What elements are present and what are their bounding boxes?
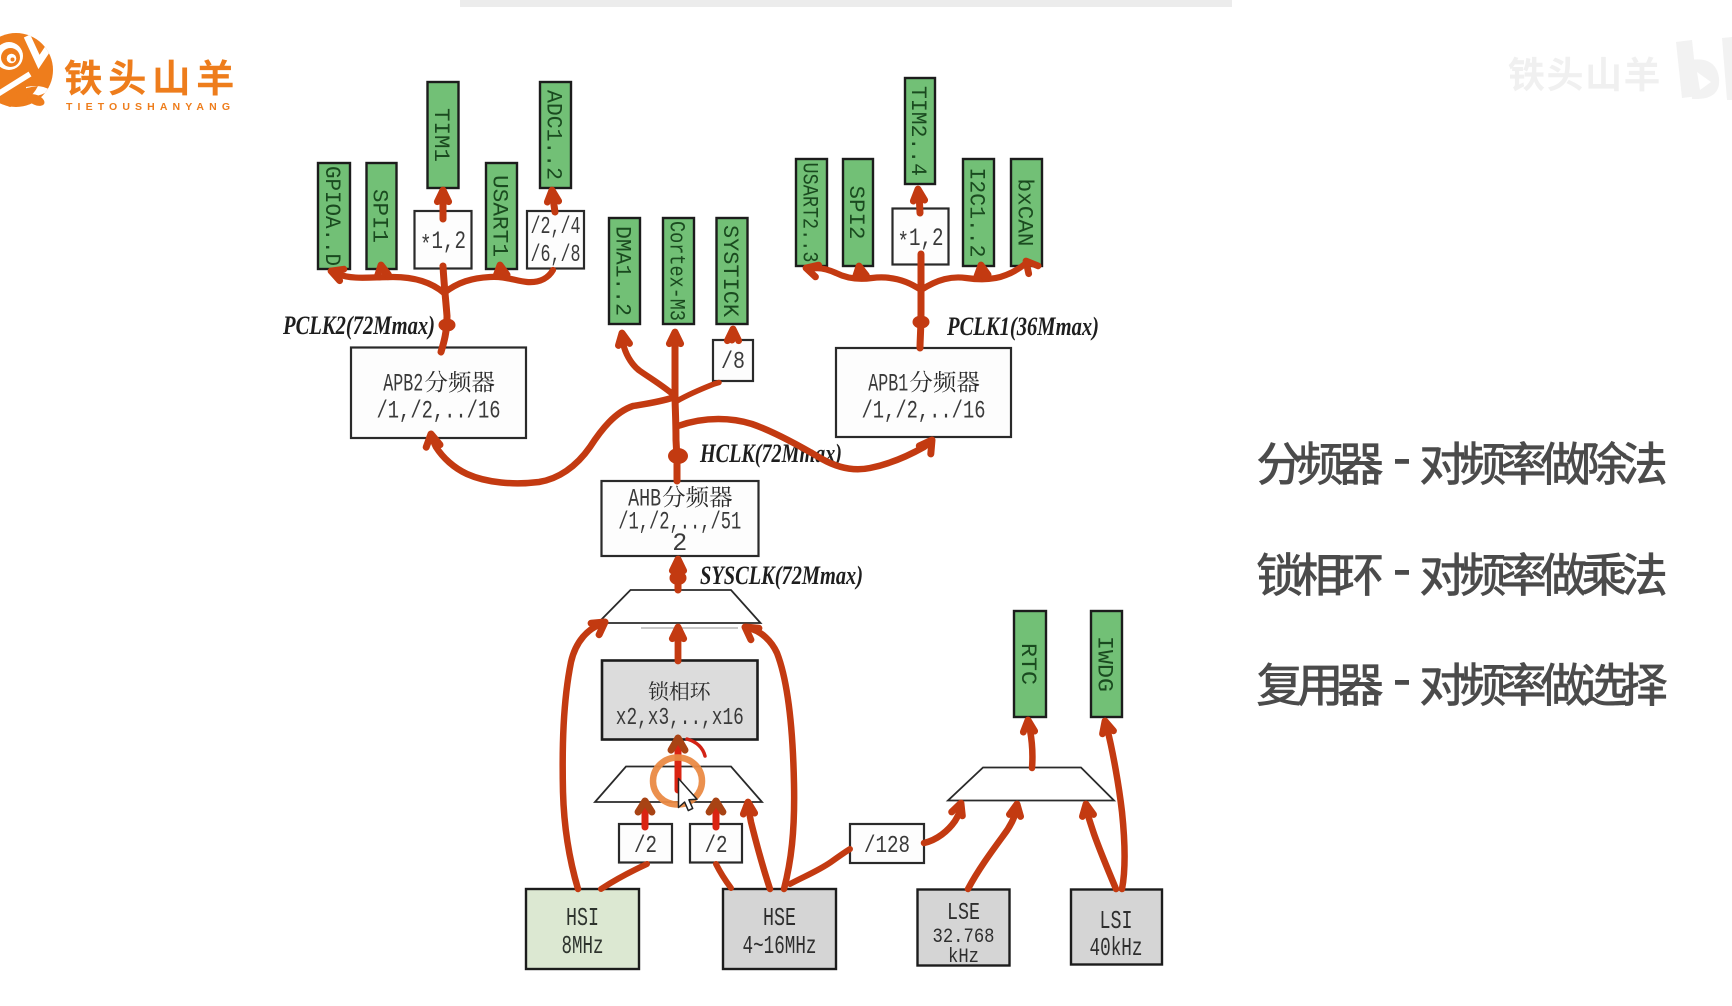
divider box /2 (HSE path) xyxy=(690,824,742,863)
peripheral box DMA1..2 xyxy=(609,218,640,324)
svg-text:LSE: LSE xyxy=(947,900,980,927)
PLL box 锁相环 xyxy=(602,661,758,740)
label PCLK1(36Mmax) xyxy=(946,312,1099,341)
svg-text:HSI: HSI xyxy=(566,903,599,933)
multiplier box *1,2 (APB1) xyxy=(893,209,949,265)
LSE oscillator box xyxy=(918,890,1010,970)
wire LSI to IWDG xyxy=(1103,721,1125,889)
annotation small red arc xyxy=(687,739,705,756)
PLL source multiplexer trapezoid xyxy=(595,767,762,803)
LSI oscillator box xyxy=(1071,890,1162,965)
svg-text:40kHz: 40kHz xyxy=(1090,933,1143,963)
peripheral box ADC1..2 xyxy=(540,82,571,188)
RTC source multiplexer trapezoid xyxy=(948,768,1114,801)
SYSCLK mux inner line xyxy=(641,627,738,629)
svg-text:USART2..3: USART2..3 xyxy=(797,163,822,263)
svg-text:SYSCLK(72Mmax): SYSCLK(72Mmax) xyxy=(700,561,863,590)
svg-text:8MHz: 8MHz xyxy=(562,931,604,961)
svg-text:2: 2 xyxy=(672,529,687,558)
watermark 铁头山羊 xyxy=(1509,56,1659,91)
wire HCLK left swoosh to APB2 xyxy=(426,397,675,483)
mouse cursor xyxy=(679,779,698,811)
label PCLK2(72Mmax) xyxy=(282,311,435,340)
wire branch to I2C1..2 and bxCAN xyxy=(921,261,1038,290)
divider box /2,/4,/6,/8 (ADC) xyxy=(527,211,584,269)
top faint bar xyxy=(460,0,1232,7)
node PCLK2 junction dot xyxy=(439,319,456,332)
svg-text:*1,2: *1,2 xyxy=(420,227,466,260)
wire HCLK right swoosh to APB1 xyxy=(678,419,932,469)
wire HSI tall swoosh to SYSCLK mux xyxy=(563,622,605,889)
svg-text:HSE: HSE xyxy=(763,903,796,933)
annotation orange circle xyxy=(653,758,702,805)
text line 分频器 - 对频率做除法 xyxy=(1258,441,1666,485)
text line 锁相环 - 对频率做乘法 xyxy=(1257,552,1665,596)
svg-text:PCLK1(36Mmax): PCLK1(36Mmax) xyxy=(946,312,1099,341)
wire LSE to RTC mux xyxy=(968,804,1021,889)
svg-text:GPIOA..D: GPIOA..D xyxy=(319,166,344,266)
peripheral box bxCAN xyxy=(1011,159,1042,266)
node PCLK1 junction dot xyxy=(913,316,930,329)
wire branch to DMA1..2 xyxy=(618,333,675,396)
arrow RTC mux to RTC xyxy=(1023,720,1034,768)
wire PCLK2 trunk xyxy=(441,266,447,352)
svg-text:/8: /8 xyxy=(721,349,745,376)
peripheral box SPI2 xyxy=(843,159,873,266)
wire HSE to /128 xyxy=(790,849,850,884)
arrow /2,/4 box to ADC1..2 xyxy=(547,190,558,212)
arrow *1,2 to TIM2..4 xyxy=(913,189,924,213)
svg-text:RTC: RTC xyxy=(1015,643,1040,685)
arrow /2 to PLL mux (left) xyxy=(638,801,652,827)
wire /128 to RTC mux xyxy=(924,803,962,843)
peripheral box RTC xyxy=(1014,611,1046,717)
HSE oscillator box xyxy=(723,889,836,969)
label SYSCLK(72Mmax) xyxy=(700,561,863,590)
wire AHB trunk to Cortex-M3 xyxy=(669,332,680,481)
svg-text:IWDG: IWDG xyxy=(1092,636,1117,692)
arrow /2 to PLL mux (right) xyxy=(709,801,723,827)
peripheral box SYSTICK xyxy=(717,218,748,324)
wire branch to USART2..3 and SPI2 xyxy=(806,265,921,290)
svg-text:PCLK2(72Mmax): PCLK2(72Mmax) xyxy=(282,311,435,340)
arrow PLL mux to PLL xyxy=(671,738,685,790)
svg-text:USART1: USART1 xyxy=(487,175,512,257)
svg-text:SYSTICK: SYSTICK xyxy=(717,225,742,318)
multiplier box *1,2 (APB2) xyxy=(415,211,472,269)
wire branch to USART1 and /2,/4 box xyxy=(444,265,553,293)
arrow PLL to SYSCLK mux xyxy=(672,627,683,661)
arrow /8 to SYSTICK xyxy=(727,329,738,341)
logo text 铁头山羊 xyxy=(65,59,233,95)
AHB divider box xyxy=(602,481,759,558)
svg-text:/2: /2 xyxy=(705,833,728,860)
logo subtext TIETOUSHANYANG xyxy=(66,101,230,113)
peripheral box USART1 xyxy=(486,163,517,269)
svg-text:/2: /2 xyxy=(634,833,657,860)
svg-text:4~16MHz: 4~16MHz xyxy=(743,931,817,961)
wire branch to /8 box xyxy=(677,383,719,402)
logo goat icon xyxy=(0,33,55,108)
svg-text:APB1: APB1 xyxy=(868,370,908,399)
arrow *1,2 to TIM1 xyxy=(437,190,448,219)
svg-text:SPI2: SPI2 xyxy=(843,186,868,240)
wire LSI to RTC mux xyxy=(1082,804,1116,889)
svg-text:TIM1: TIM1 xyxy=(428,108,453,162)
peripheral box IWDG xyxy=(1091,611,1122,717)
node HCLK junction dot xyxy=(668,448,688,464)
wire HSE to /2 xyxy=(716,864,731,888)
svg-text:SPI1: SPI1 xyxy=(367,189,392,243)
svg-text:/128: /128 xyxy=(864,833,910,860)
divider box /8 (SYSTICK) xyxy=(713,340,753,381)
svg-text:LSI: LSI xyxy=(1100,906,1133,936)
divider box /2 (HSI path) xyxy=(619,824,672,863)
arrow SYSCLK to AHB xyxy=(672,559,683,590)
peripheral box GPIOA..D xyxy=(318,163,350,269)
wire stub to SPI1 xyxy=(377,265,388,277)
SYSCLK multiplexer trapezoid xyxy=(598,590,761,623)
peripheral box Cortex-M3 xyxy=(663,218,694,324)
peripheral box I2C1..2 xyxy=(963,159,994,266)
peripheral box USART2..3 xyxy=(796,159,827,266)
node SYSCLK junction dot xyxy=(670,571,687,585)
wire HSI to /2 xyxy=(601,864,647,889)
svg-text:/2,/4: /2,/4 xyxy=(531,214,581,241)
APB1 divider box xyxy=(836,348,1011,437)
svg-text:/1,/2,../16: /1,/2,../16 xyxy=(862,397,986,426)
svg-text:APB2: APB2 xyxy=(383,370,423,399)
wire HSE to PLL mux xyxy=(743,802,770,889)
watermark bilibili logo xyxy=(1676,37,1732,100)
svg-text:DMA1..2: DMA1..2 xyxy=(610,226,635,316)
peripheral box TIM1 xyxy=(428,82,459,188)
svg-text:TIM2..4: TIM2..4 xyxy=(905,86,930,176)
svg-text:x2,x3,..,x16: x2,x3,..,x16 xyxy=(616,705,744,732)
wire PCLK1 trunk xyxy=(920,254,921,348)
wire HSE tall swoosh to SYSCLK mux xyxy=(745,627,794,889)
wire branch to GPIOA..D xyxy=(331,269,444,293)
divider box /128 (HSE to RTC) xyxy=(850,824,924,863)
APB2 divider box xyxy=(351,348,526,439)
HSI oscillator box xyxy=(526,889,639,969)
svg-text:HCLK(72Mmax): HCLK(72Mmax) xyxy=(699,439,842,468)
label HCLK(72Mmax) xyxy=(699,439,842,468)
svg-text:I2C1..2: I2C1..2 xyxy=(964,168,989,258)
svg-text:ADC1..2: ADC1..2 xyxy=(541,90,566,180)
svg-text:/6,/8: /6,/8 xyxy=(531,242,581,269)
text line 复用器 - 对频率做选择 xyxy=(1257,662,1667,706)
svg-text:Cortex-M3: Cortex-M3 xyxy=(664,221,689,321)
svg-text:kHz: kHz xyxy=(948,946,979,969)
peripheral box TIM2..4 xyxy=(905,78,935,184)
peripheral box SPI1 xyxy=(367,163,397,269)
svg-text:bxCAN: bxCAN xyxy=(1012,179,1037,247)
svg-text:/1,/2,../16: /1,/2,../16 xyxy=(377,397,501,426)
